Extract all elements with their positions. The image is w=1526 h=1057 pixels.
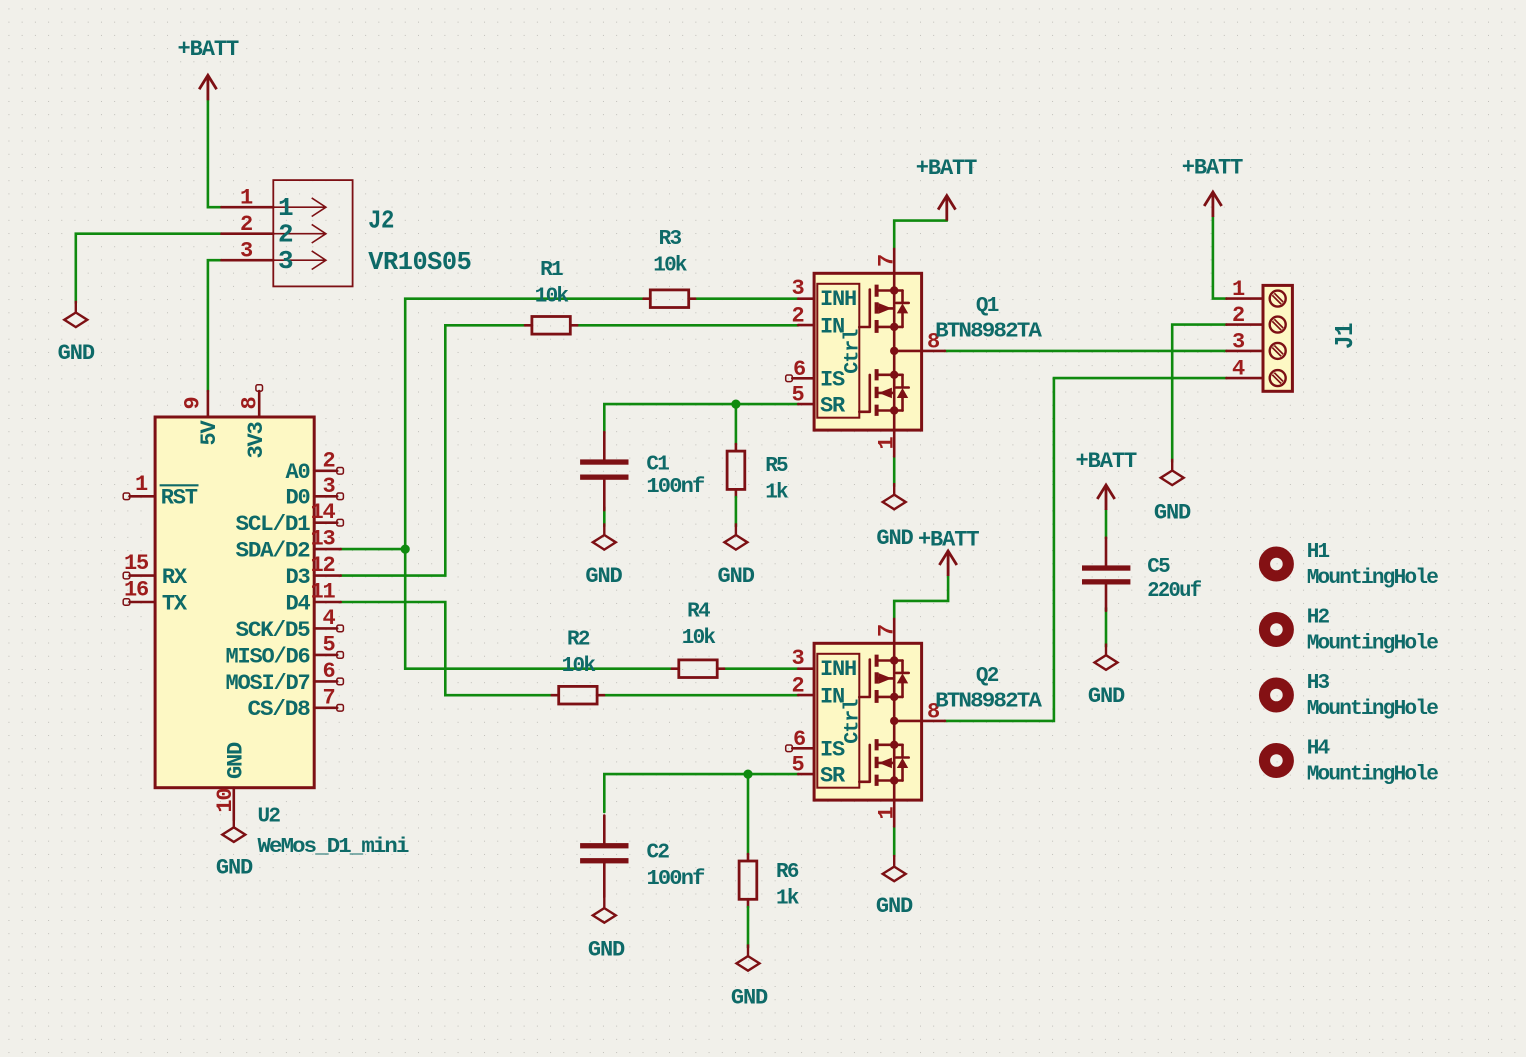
ground (J1) (1161, 459, 1184, 485)
svg-text:1: 1 (874, 807, 899, 820)
Q1 high-side MOSFET (859, 285, 908, 333)
svg-text:3: 3 (1232, 329, 1245, 354)
wire U2 D3 to R1 to Q1 IN (341, 325, 799, 575)
svg-text:GND: GND (1154, 501, 1191, 526)
svg-text:MOSI/D7: MOSI/D7 (226, 671, 310, 696)
svg-text:GND: GND (1088, 684, 1125, 709)
svg-text:A0: A0 (285, 460, 309, 485)
svg-text:MountingHole: MountingHole (1307, 698, 1439, 721)
svg-text:5: 5 (322, 632, 335, 657)
U2 pin 5 (MISO/D6) (314, 654, 337, 657)
wire junction to R5 (735, 404, 738, 444)
wire +BATT to Q2 pin7 (894, 576, 948, 619)
U2 pin 14 (SCL/D1) (314, 521, 337, 524)
svg-text:SCK/D5: SCK/D5 (236, 618, 311, 643)
svg-text:11: 11 (310, 580, 335, 605)
wire +BATT to J1 pin1 (1213, 217, 1227, 299)
wire J2 pin3 to U2 5V (208, 260, 222, 391)
U2 pin 6 (MOSI/D7) (314, 680, 337, 683)
svg-text:D4: D4 (285, 591, 310, 616)
svg-text:4: 4 (322, 606, 335, 631)
svg-text:R4: R4 (687, 601, 710, 624)
svg-text:5: 5 (791, 383, 804, 408)
svg-text:RST: RST (161, 486, 198, 511)
wire C5 to GND (1105, 608, 1108, 647)
svg-text:100nf: 100nf (647, 868, 705, 891)
J2 pin 1 (222, 206, 274, 209)
wire C1 to GND (603, 507, 606, 526)
U2 pin 3 (D0) (314, 495, 337, 498)
wire R5 to GND (735, 489, 738, 497)
svg-text:Ctrl: Ctrl (841, 699, 864, 744)
Q2 internal trunk (894, 643, 921, 800)
svg-text:10k: 10k (653, 255, 687, 278)
svg-text:SR: SR (820, 394, 846, 419)
capacitor C5 (1082, 538, 1130, 611)
mounting hole H3 (1265, 683, 1289, 707)
power +BATT (Q2) (939, 551, 956, 576)
svg-text:+BATT: +BATT (178, 37, 239, 62)
capacitor C1 (580, 432, 628, 510)
mounting hole H1 (1265, 552, 1289, 576)
IC U2 WeMos_D1_mini (123, 385, 343, 820)
svg-text:6: 6 (793, 727, 805, 752)
J1 pin 1 (1227, 297, 1264, 300)
ground (Q1) (883, 483, 906, 509)
wire Q1 pin1 to GND (893, 456, 896, 486)
Q1 pin 6 (IS) (792, 377, 814, 380)
U2 pin 7 (CS/D8) (314, 706, 337, 709)
Q1 pin 3 (INH) (798, 297, 814, 300)
svg-text:C5: C5 (1147, 556, 1170, 579)
U2 pin 2 (A0) (314, 469, 337, 472)
svg-text:GND: GND (585, 564, 622, 589)
U2 pin 8 (3V3) (258, 391, 261, 417)
svg-text:SDA/D2: SDA/D2 (236, 539, 310, 564)
svg-text:GND: GND (876, 526, 913, 551)
svg-text:2: 2 (1232, 303, 1244, 328)
U2 pin 10 (GND) (233, 788, 236, 820)
svg-text:13: 13 (310, 527, 335, 552)
Q2 high-side MOSFET (859, 655, 908, 703)
svg-text:D0: D0 (285, 486, 309, 511)
svg-text:4: 4 (1232, 357, 1245, 382)
J1 pin 4 (1227, 377, 1264, 380)
wire +BATT to Q1 pin7 (894, 221, 947, 249)
svg-text:H1: H1 (1307, 541, 1330, 564)
U2 pin 9 (5V) (207, 391, 210, 417)
svg-text:10k: 10k (562, 655, 596, 678)
U2 pin 12 (D3) (314, 574, 341, 577)
svg-text:BTN8982TA: BTN8982TA (935, 321, 1042, 344)
svg-text:1: 1 (874, 437, 899, 450)
svg-text:TX: TX (162, 591, 188, 616)
svg-text:CS/D8: CS/D8 (248, 697, 311, 722)
J1 pin 2 (1227, 323, 1264, 326)
resistor R2 (552, 686, 604, 704)
wire C1 R5 to Q1 SR (604, 404, 798, 433)
resistor R3 (644, 290, 696, 308)
svg-text:J1: J1 (1330, 323, 1360, 349)
svg-text:3: 3 (791, 276, 804, 301)
svg-text:INH: INH (820, 657, 856, 682)
svg-text:7: 7 (322, 685, 334, 710)
svg-text:10: 10 (213, 789, 238, 813)
Q1 pin 1 (893, 430, 896, 456)
power +BATT (Q1) (938, 196, 955, 221)
wire U2 D4 to R2 to Q2 IN (341, 602, 799, 695)
svg-text:10k: 10k (682, 627, 716, 650)
resistor R4 (672, 660, 724, 678)
svg-text:R1: R1 (540, 259, 563, 282)
Q2 pin 7 (893, 619, 896, 643)
ground (U2) (222, 816, 245, 842)
svg-text:10k: 10k (535, 285, 569, 308)
Q1 pin 2 (IN) (798, 324, 814, 327)
connector J1 (1227, 285, 1293, 391)
svg-text:1: 1 (1232, 277, 1245, 302)
svg-text:220uf: 220uf (1147, 580, 1201, 603)
Q2 low-side body diode (896, 745, 908, 781)
capacitor C2 (580, 816, 628, 898)
svg-text:GND: GND (718, 564, 755, 589)
svg-text:+BATT: +BATT (1182, 155, 1243, 180)
svg-text:GND: GND (223, 742, 248, 779)
Q2 pin 8 (922, 720, 945, 723)
svg-text:SCL/D1: SCL/D1 (236, 512, 311, 537)
svg-text:1: 1 (240, 186, 253, 211)
svg-text:100nf: 100nf (646, 476, 704, 499)
svg-text:2: 2 (791, 304, 803, 329)
svg-text:8: 8 (238, 397, 263, 410)
wire GND to J2 pin2 (76, 234, 222, 303)
Q2 high-side body diode (896, 661, 908, 697)
J2 pin 3 (222, 259, 274, 262)
wire Q2 pin1 to GND (893, 826, 896, 856)
Q2 pin 3 (INH) (798, 667, 814, 670)
svg-text:3: 3 (278, 246, 293, 276)
wire junction to R6 (747, 774, 750, 854)
wire +BATT to J2 pin1 (208, 100, 222, 207)
ground (R6) (737, 944, 760, 970)
J1 pin 3 (1227, 350, 1264, 353)
svg-text:SR: SR (820, 764, 846, 789)
svg-text:GND: GND (588, 937, 625, 962)
power +BATT (top left) (199, 75, 216, 100)
Q1 low-side body diode (896, 375, 908, 411)
svg-text:VR10S05: VR10S05 (368, 247, 471, 277)
svg-text:2: 2 (322, 448, 334, 473)
wire J1 pin2 to GND (1172, 325, 1226, 462)
svg-text:MountingHole: MountingHole (1307, 633, 1439, 656)
Q1 pin 5 (SR) (798, 403, 814, 406)
Q1 low-side MOSFET (859, 369, 908, 416)
svg-text:2: 2 (791, 674, 803, 699)
wire Q2 pin8 to J1 pin4 (945, 378, 1227, 721)
svg-text:INH: INH (820, 287, 856, 312)
ground (C5) (1095, 644, 1118, 670)
ground (C2) (593, 896, 616, 922)
svg-text:6: 6 (322, 659, 334, 684)
svg-text:C1: C1 (646, 454, 669, 477)
svg-text:MISO/D6: MISO/D6 (226, 644, 310, 669)
svg-text:2: 2 (278, 220, 293, 250)
svg-text:Ctrl: Ctrl (841, 329, 864, 374)
svg-text:2: 2 (240, 212, 252, 237)
svg-text:1k: 1k (776, 888, 799, 911)
resistor R6 (739, 861, 757, 899)
power +BATT (C5) (1097, 485, 1114, 510)
svg-text:1: 1 (278, 193, 293, 223)
svg-text:D3: D3 (285, 565, 310, 590)
wire R6 to GND (747, 899, 750, 907)
U2 pin 1 (RST) (130, 495, 156, 498)
ground (J2) (64, 301, 87, 327)
transistor Q2 BTN8982TA (786, 619, 945, 827)
U2 pin 4 (SCK/D5) (314, 627, 337, 630)
Q2 pin 2 (IN) (798, 694, 814, 697)
svg-text:3V3: 3V3 (244, 422, 269, 459)
svg-text:5: 5 (791, 753, 804, 778)
svg-text:GND: GND (216, 856, 253, 881)
svg-text:1k: 1k (765, 481, 788, 504)
svg-text:J2: J2 (368, 206, 394, 236)
svg-text:5V: 5V (197, 420, 222, 446)
J2 pin1 arrow (273, 198, 326, 217)
svg-text:+BATT: +BATT (916, 156, 977, 181)
svg-text:7: 7 (874, 625, 899, 637)
svg-text:3: 3 (240, 239, 253, 264)
svg-text:MountingHole: MountingHole (1307, 764, 1439, 787)
Q1 pin 7 (893, 249, 896, 273)
svg-text:1: 1 (135, 472, 148, 497)
ground (R5) (724, 523, 747, 549)
Q2 pin 5 (SR) (798, 773, 814, 776)
svg-text:3: 3 (791, 646, 804, 671)
svg-text:3: 3 (322, 474, 335, 499)
svg-text:R5: R5 (765, 455, 788, 478)
svg-text:R2: R2 (567, 628, 590, 651)
junction node SDA/D2 (401, 545, 410, 554)
U2 pin 13 (SDA/D2) (314, 548, 341, 551)
wire Q1 pin8 to J1 pin3 (945, 350, 1227, 353)
wire U2 SDA/D2 to junction (341, 548, 406, 551)
svg-text:WeMos_D1_mini: WeMos_D1_mini (258, 836, 409, 859)
J2 pin 2 (222, 232, 274, 235)
wire junction up to R3 to Q1 INH (405, 299, 798, 549)
svg-text:H2: H2 (1307, 607, 1330, 630)
J2 pin3 arrow (273, 251, 326, 270)
svg-text:Q1: Q1 (976, 295, 999, 318)
svg-text:6: 6 (793, 357, 805, 382)
Q2 pin 6 (IS) (792, 747, 814, 750)
transistor Q1 BTN8982TA (786, 249, 945, 457)
svg-text:R3: R3 (659, 228, 682, 251)
U2 RST overline (160, 484, 199, 486)
svg-text:7: 7 (874, 255, 899, 267)
U2 pin 15 (RX) (130, 574, 156, 577)
svg-text:GND: GND (731, 985, 768, 1010)
connector J2 (222, 180, 353, 286)
svg-text:MountingHole: MountingHole (1307, 567, 1439, 590)
junction node Q1 SR net (731, 400, 740, 409)
resistor R1 (525, 317, 577, 335)
svg-text:16: 16 (124, 578, 148, 603)
Q2 low-side MOSFET (859, 739, 908, 786)
ground (Q2) (883, 855, 906, 881)
svg-text:H3: H3 (1307, 672, 1330, 695)
svg-text:12: 12 (310, 553, 334, 578)
mounting hole H4 (1265, 749, 1289, 773)
junction node Q2 SR net (743, 770, 752, 779)
svg-text:RX: RX (162, 565, 188, 590)
wire C2 R6 to Q2 SR (604, 774, 798, 812)
Q1 high-side body diode (896, 291, 908, 327)
U2 pin 11 (D4) (314, 601, 341, 604)
svg-text:GND: GND (876, 894, 913, 919)
wire +BATT to C5 (1105, 510, 1108, 538)
svg-text:GND: GND (58, 341, 95, 366)
wire junction down to R4 to Q2 INH (405, 549, 798, 669)
svg-text:+BATT: +BATT (1076, 449, 1137, 474)
svg-text:R6: R6 (776, 861, 799, 884)
mounting hole H2 (1265, 618, 1289, 642)
Q2 pin 1 (893, 800, 896, 826)
power +BATT (J1) (1204, 192, 1221, 217)
svg-text:9: 9 (181, 397, 206, 409)
svg-text:Q2: Q2 (976, 665, 999, 688)
svg-text:C2: C2 (647, 842, 670, 865)
Q1 pin 8 (922, 350, 945, 353)
svg-text:15: 15 (124, 551, 149, 576)
resistor R5 (727, 451, 745, 489)
ground (C1) (593, 523, 616, 549)
svg-text:U2: U2 (258, 806, 281, 829)
Q1 internal trunk (894, 273, 921, 430)
svg-text:14: 14 (310, 500, 335, 525)
U2 pin 16 (TX) (130, 601, 156, 604)
svg-text:+BATT: +BATT (918, 527, 979, 552)
svg-text:H4: H4 (1307, 738, 1330, 761)
J2 pin2 arrow (273, 224, 326, 243)
svg-text:BTN8982TA: BTN8982TA (935, 691, 1042, 714)
